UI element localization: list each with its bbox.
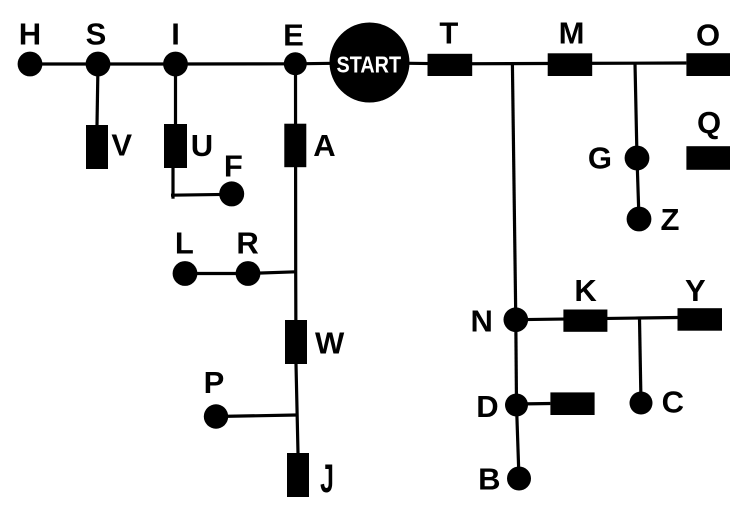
node B (507, 467, 531, 491)
svg-text:Q: Q (697, 105, 721, 140)
node START (330, 23, 410, 103)
node E (284, 52, 307, 75)
node H (18, 52, 43, 77)
svg-text:C: C (662, 385, 684, 420)
svg-text:O: O (696, 18, 720, 53)
svg-text:D: D (476, 389, 498, 424)
wire I to U (174, 64, 177, 124)
node S (86, 52, 111, 77)
svg-text:I: I (171, 17, 180, 52)
svg-text:M: M (559, 16, 585, 51)
svg-text:S: S (86, 17, 107, 52)
svg-text:E: E (283, 18, 304, 53)
node O (686, 53, 730, 76)
node C (630, 392, 653, 415)
svg-text:T: T (439, 16, 458, 51)
svg-text:N: N (471, 303, 493, 338)
svg-text:START: START (337, 51, 402, 77)
node T (428, 54, 473, 76)
wire E column through A W down to J (296, 64, 299, 453)
node U (164, 124, 187, 168)
svg-text:V: V (111, 127, 132, 162)
svg-text:B: B (478, 462, 500, 497)
svg-text:R: R (236, 226, 258, 261)
node Y (678, 308, 723, 331)
node D (505, 394, 528, 417)
node A (284, 124, 306, 168)
node G (625, 146, 650, 171)
wire junction T/M down to N (512, 64, 515, 320)
node F (219, 181, 244, 206)
wire S to V (97, 64, 98, 125)
node L (173, 261, 198, 286)
node J (287, 453, 309, 497)
svg-text:G: G (588, 140, 612, 175)
svg-text:A: A (313, 128, 335, 163)
node M (548, 53, 593, 76)
node W (285, 320, 307, 364)
wire U elbow vertical (171, 168, 174, 199)
svg-text:P: P (204, 365, 225, 400)
node stub rect by D (550, 392, 594, 415)
node N (504, 307, 529, 332)
svg-text:Z: Z (661, 202, 680, 237)
node P (204, 404, 228, 428)
svg-text:W: W (315, 326, 345, 361)
wire L-R to column (185, 272, 296, 274)
wire N-K-Y (516, 318, 678, 320)
wire D to B (517, 405, 520, 479)
node R (236, 261, 261, 286)
node K (563, 310, 607, 332)
node Z (627, 207, 652, 232)
wire main horizontal H-S-I-E-START-T-M-O (30, 63, 686, 64)
wire main line down to G (635, 63, 637, 158)
node Q (686, 146, 730, 170)
svg-text:H: H (19, 17, 41, 52)
wire drop to C (640, 319, 642, 404)
svg-text:J: J (320, 457, 334, 502)
node V (86, 125, 108, 169)
wire P to column (216, 415, 297, 417)
wire G to Z (637, 158, 639, 219)
svg-text:L: L (175, 226, 194, 261)
svg-text:F: F (224, 149, 243, 184)
wire U elbow horizontal to F (171, 193, 232, 197)
wire D to stub rect (517, 402, 551, 406)
svg-text:Y: Y (685, 273, 706, 308)
node I (163, 52, 188, 77)
wire N to D (514, 320, 518, 405)
svg-text:U: U (191, 128, 213, 163)
svg-text:K: K (574, 273, 597, 308)
